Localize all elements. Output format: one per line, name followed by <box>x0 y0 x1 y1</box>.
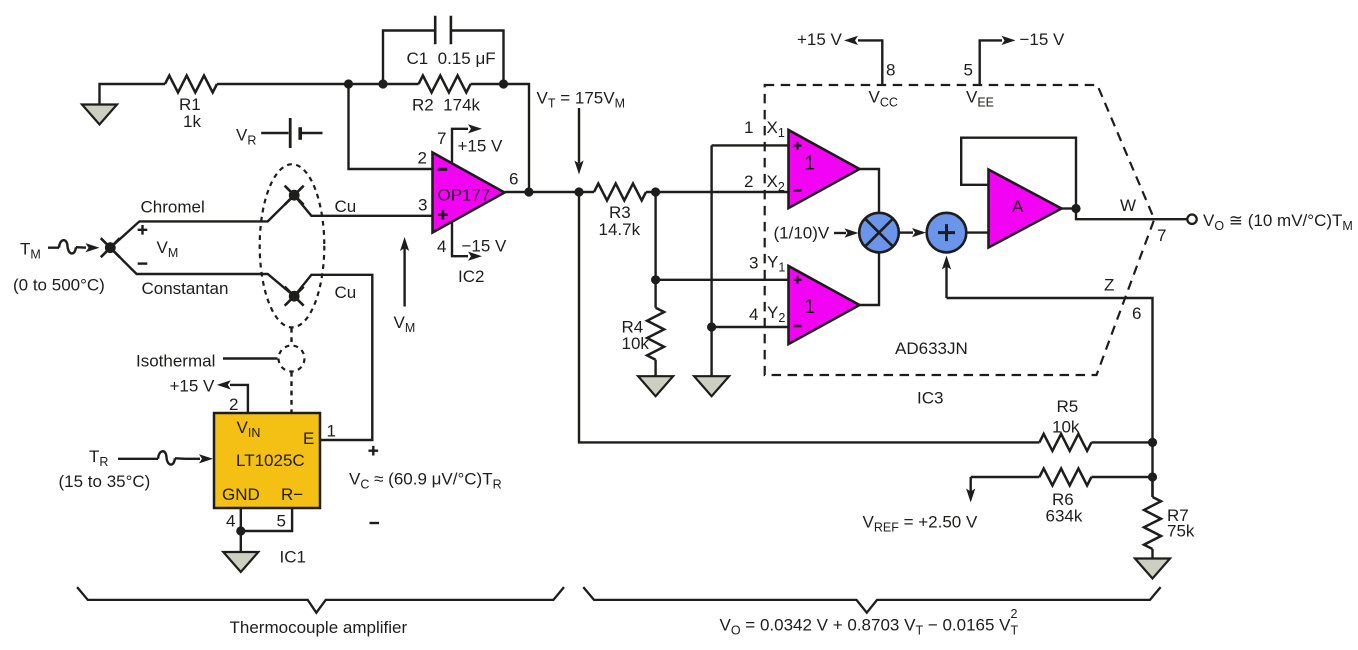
label minus (VC) <box>370 522 380 524</box>
node (pin4/pin5) <box>236 526 245 535</box>
label OP177 <box>438 186 491 205</box>
svg-text:X2: X2 <box>767 172 785 194</box>
VREF arrow <box>966 477 975 503</box>
svg-text:−15 V: −15 V <box>462 237 508 256</box>
svg-text:Cu: Cu <box>335 197 357 216</box>
svg-text:8: 8 <box>886 61 895 80</box>
svg-text:1k: 1k <box>183 112 201 131</box>
wire (feedback to op-amp pin 2) <box>349 84 433 169</box>
svg-text:VO = 0.0342 V + 0.8703 VT − 0.: VO = 0.0342 V + 0.8703 VT − 0.0165 VT <box>720 616 1019 638</box>
svg-text:Cu: Cu <box>335 283 357 302</box>
pin 8 number <box>886 61 895 80</box>
label VC equation <box>349 470 502 492</box>
svg-text:VREF = +2.50 V: VREF = +2.50 V <box>863 513 978 535</box>
label Thermocouple amplifier <box>230 618 408 637</box>
wire (R1 to R2) <box>217 83 419 85</box>
label minus (Y amp) <box>794 325 802 328</box>
wire X1 input <box>712 144 789 146</box>
svg-text:R2 174k: R2 174k <box>412 96 481 115</box>
wire A feedback loop <box>961 138 1076 209</box>
node (VT tap) <box>574 187 583 196</box>
label Isothermal <box>136 352 215 371</box>
svg-text:14.7k: 14.7k <box>599 220 641 239</box>
label (1/10)V <box>774 224 830 243</box>
op-amp pin 4 supply wire <box>452 222 468 257</box>
svg-text:4: 4 <box>749 305 758 324</box>
svg-text:5: 5 <box>277 512 286 531</box>
pin 6 number (IC3 Z) <box>1132 304 1141 323</box>
svg-text:LT1025C: LT1025C <box>236 451 305 470</box>
capacitor C1 <box>383 16 504 84</box>
label Cu upper <box>335 197 357 216</box>
node (C1 left) <box>378 79 387 88</box>
svg-text:E: E <box>303 429 314 448</box>
svg-text:Isothermal: Isothermal <box>136 352 215 371</box>
label +15 V (op-amp) <box>458 137 504 156</box>
svg-text:VO ≅ (10 mV/°C)TM: VO ≅ (10 mV/°C)TM <box>1203 211 1353 233</box>
IC3 pin 5 supply wire <box>980 36 1016 85</box>
svg-text:−15 V: −15 V <box>1020 30 1066 49</box>
label plus (VC) <box>369 446 379 456</box>
label plus (X amp) <box>794 142 802 150</box>
label gain 1 (X amp) <box>804 153 815 175</box>
node (Y1/R4) <box>651 275 660 284</box>
node (feedback tap) <box>344 79 353 88</box>
svg-text:TM: TM <box>20 240 41 262</box>
VM arrow (below op-amp) <box>400 237 409 307</box>
label X2 <box>767 172 785 194</box>
label R3 value <box>599 203 641 239</box>
pin 2 number (IC1) <box>229 395 238 414</box>
pin 1 number (IC3) <box>744 118 753 137</box>
svg-text:R5: R5 <box>1057 397 1079 416</box>
label VEE <box>966 88 994 110</box>
svg-text:3: 3 <box>418 196 427 215</box>
label -15 V (op-amp) <box>462 237 508 256</box>
dashed ellipse (isothermal block) <box>260 164 325 327</box>
svg-text:OP177: OP177 <box>438 186 491 205</box>
label X1 <box>767 118 785 140</box>
svg-text:W: W <box>1120 196 1136 215</box>
VT pointer arrow <box>574 108 583 175</box>
svg-text:TR: TR <box>89 447 108 469</box>
svg-text:5: 5 <box>964 61 973 80</box>
svg-text:VR: VR <box>236 126 256 148</box>
label VO equation <box>720 607 1019 638</box>
label R7 value <box>1167 506 1195 541</box>
label R1 value <box>179 95 201 131</box>
wire (VT down to R5 line) <box>579 192 1039 442</box>
svg-text:1: 1 <box>744 118 753 137</box>
label W <box>1120 196 1136 215</box>
svg-text:4: 4 <box>226 512 235 531</box>
IC3 dashed boundary <box>765 85 1155 375</box>
svg-text:A: A <box>1012 197 1024 216</box>
output terminal <box>1187 215 1196 224</box>
wire summer to A amp <box>966 231 988 233</box>
junction (Constantan-Cu) <box>285 287 304 306</box>
label VIN <box>237 418 261 440</box>
wire VREF corner <box>971 476 1040 478</box>
svg-text:+15 V: +15 V <box>458 137 504 156</box>
svg-text:R−: R− <box>281 485 303 504</box>
label GND <box>222 485 260 504</box>
svg-text:1: 1 <box>804 296 815 318</box>
label C1 value <box>407 49 496 68</box>
label plus (Y amp) <box>794 276 802 284</box>
label R- <box>281 485 303 504</box>
Y buffer amp <box>789 266 860 344</box>
ground (rail) <box>694 376 729 396</box>
wire Cu (lower, to IC1 pin E) <box>294 275 372 440</box>
resistor R1 <box>165 76 217 93</box>
pin 3 number <box>418 196 427 215</box>
summer <box>927 213 967 253</box>
svg-text:Y2: Y2 <box>767 303 785 325</box>
ground (R4) <box>638 376 673 396</box>
node (Y2 tap) <box>707 322 716 331</box>
svg-text:75k: 75k <box>1167 522 1195 541</box>
svg-text:VT = 175VM: VT = 175VM <box>537 89 625 111</box>
pin 6 number <box>509 170 518 189</box>
ground (IC1) <box>223 552 258 572</box>
multiplier <box>859 213 899 253</box>
svg-text:Thermocouple amplifier: Thermocouple amplifier <box>230 618 408 637</box>
summer Z input arrow <box>942 256 951 299</box>
svg-text:VM: VM <box>157 238 179 260</box>
input arrow TM <box>48 240 100 253</box>
svg-text:(1/10)V: (1/10)V <box>774 224 830 243</box>
multiplier to summer arrow <box>899 228 926 237</box>
label op-amp minus input <box>438 168 448 171</box>
svg-text:Constantan: Constantan <box>142 279 229 298</box>
pin 2 number (IC3) <box>744 172 753 191</box>
node (VT feedback) <box>524 187 533 196</box>
label LT1025C <box>236 451 305 470</box>
resistor R6 <box>1039 469 1091 486</box>
svg-text:3: 3 <box>749 254 758 273</box>
dashed link node to IC1 <box>290 372 292 412</box>
pin 5 number (IC3 supply) <box>964 61 973 80</box>
label A <box>1012 197 1024 216</box>
label R6 value <box>1046 490 1083 526</box>
svg-text:+15 V: +15 V <box>797 30 843 49</box>
wire (R2 to VT corner, down to op-amp output) <box>471 84 529 192</box>
label -15 V (IC3) <box>1020 30 1066 49</box>
svg-text:1: 1 <box>327 422 336 441</box>
svg-text:VC ≈ (60.9 μV/°C)TR: VC ≈ (60.9 μV/°C)TR <box>349 470 502 492</box>
label Constantan <box>142 279 229 298</box>
label Chromel <box>141 198 205 217</box>
resistor R4 <box>647 280 664 376</box>
op-amp U1 OP177 (IC2) <box>433 153 505 233</box>
svg-text:10k: 10k <box>1052 418 1080 437</box>
svg-text:X1: X1 <box>767 118 785 140</box>
isothermal pointer line <box>223 357 278 359</box>
wire Cu (upper, to op-amp pin 3) <box>294 195 432 216</box>
pin 4 number <box>437 237 446 256</box>
wire (X1/Y2 ground rail) <box>710 145 712 376</box>
label E <box>303 429 314 448</box>
svg-text:VM: VM <box>394 313 416 335</box>
brace (thermocouple amplifier) <box>77 587 564 613</box>
label (0 to 500degC) <box>13 276 105 295</box>
(1/10)V input arrow <box>834 228 859 237</box>
svg-text:2: 2 <box>418 149 427 168</box>
wire Chromel <box>110 195 294 248</box>
wire Z <box>947 298 1153 497</box>
input arrow TR <box>118 451 213 464</box>
label R5 value <box>1052 397 1080 437</box>
pin 1 number (IC1) <box>327 422 336 441</box>
isothermal node (dashed circle) <box>279 346 305 372</box>
wire R5 to node <box>1091 441 1152 443</box>
dashed link ellipse to node <box>290 328 292 346</box>
pin 3 number (IC3) <box>749 254 758 273</box>
wire (R3 node down to Y1 node) <box>654 192 656 280</box>
wire R6 to node <box>1091 476 1152 478</box>
label TR <box>89 447 108 469</box>
label plus (VM) <box>138 225 148 235</box>
label +15 V (IC1) <box>170 377 216 396</box>
wire X amp output to multiplier <box>860 169 880 213</box>
node (R5/Z) <box>1148 438 1157 447</box>
label IC3 <box>917 389 943 408</box>
label R2 value <box>412 96 481 115</box>
svg-text:+15 V: +15 V <box>170 377 216 396</box>
label minus (X amp) <box>794 189 802 192</box>
svg-text:7: 7 <box>1157 226 1166 245</box>
label IC1 <box>280 548 306 567</box>
svg-text:Chromel: Chromel <box>141 198 205 217</box>
op-amp pin 7 supply wire <box>452 129 468 164</box>
svg-text:2: 2 <box>744 172 753 191</box>
wire Constantan <box>110 248 294 297</box>
svg-text:(0 to 500°C): (0 to 500°C) <box>13 276 105 295</box>
svg-text:IC2: IC2 <box>458 267 484 286</box>
svg-text:IC1: IC1 <box>280 548 306 567</box>
node (A output) <box>1071 204 1080 213</box>
label VCC <box>869 88 898 110</box>
ground (R7) <box>1135 559 1170 579</box>
label VT = 175VM <box>537 89 625 111</box>
label minus (VM) <box>138 262 148 264</box>
wire A amp output <box>1062 207 1077 209</box>
label Z <box>1104 276 1114 295</box>
wire Y2 input <box>712 326 789 328</box>
thermocouple junction (measuring) <box>101 238 120 257</box>
svg-text:10k: 10k <box>622 334 650 353</box>
label TM <box>20 240 41 262</box>
label Y1 <box>767 253 785 275</box>
node (C1 right) <box>499 79 508 88</box>
label VO output <box>1203 211 1353 233</box>
A output amp <box>989 170 1062 248</box>
label Cu lower <box>335 283 357 302</box>
svg-text:AD633JN: AD633JN <box>895 339 968 358</box>
wire W output <box>1076 209 1187 220</box>
wire Y1 input <box>656 279 789 281</box>
IC1 pin 5 wire <box>241 508 292 531</box>
IC1 pin 2 supply wire <box>217 380 248 413</box>
svg-text:634k: 634k <box>1046 507 1083 526</box>
svg-text:C1 0.15 μF: C1 0.15 μF <box>407 49 496 68</box>
label Y2 <box>767 303 785 325</box>
svg-text:Y1: Y1 <box>767 253 785 275</box>
ground (top-left) <box>82 105 117 125</box>
svg-text:GND: GND <box>222 485 260 504</box>
svg-text:IC3: IC3 <box>917 389 943 408</box>
pin 2 number <box>418 149 427 168</box>
resistor R2 <box>419 76 471 93</box>
pin 4 number (IC1) <box>226 512 235 531</box>
svg-text:7: 7 <box>437 129 446 148</box>
pin 4 number (IC3) <box>749 305 758 324</box>
label VR <box>236 126 256 148</box>
label (15 to 35degC) <box>59 472 151 491</box>
node (R3 output) <box>651 187 660 196</box>
IC1 pin 4 wire <box>240 508 242 552</box>
resistor R7 <box>1144 477 1161 559</box>
label VREF <box>863 513 978 535</box>
svg-text:1: 1 <box>804 153 815 175</box>
svg-text:Z: Z <box>1104 276 1114 295</box>
svg-text:6: 6 <box>509 170 518 189</box>
pin 7 number (IC3 W) <box>1157 226 1166 245</box>
label VM (thermocouple) <box>157 238 179 260</box>
pin 5 number (IC1) <box>277 512 286 531</box>
label AD633JN <box>895 339 968 358</box>
wire (gnd riser + top line to R1) <box>100 84 166 105</box>
svg-text:6: 6 <box>1132 304 1141 323</box>
IC1 LT1025C body <box>214 413 320 508</box>
label IC2 <box>458 267 484 286</box>
svg-text:2: 2 <box>229 395 238 414</box>
wire Y amp output to multiplier <box>860 252 880 305</box>
svg-text:VEE: VEE <box>966 88 994 110</box>
svg-text:2: 2 <box>1011 607 1018 621</box>
label +15 V (IC3) <box>797 30 843 49</box>
junction (Chromel-Cu) <box>285 186 304 205</box>
resistor R3 <box>594 184 646 201</box>
label op-amp plus input <box>438 210 448 220</box>
battery VR <box>261 118 322 148</box>
resistor R5 <box>1039 434 1091 451</box>
svg-text:4: 4 <box>437 237 446 256</box>
label gain 1 (Y amp) <box>804 296 815 318</box>
label R4 value <box>622 318 650 354</box>
node (R6/R7) <box>1148 472 1157 481</box>
svg-text:VCC: VCC <box>869 88 898 110</box>
brace (output equation) <box>583 587 1160 613</box>
pin 7 number <box>437 129 446 148</box>
IC3 pin 8 supply wire <box>844 36 882 85</box>
X buffer amp <box>789 130 860 208</box>
wire (op-amp output line) <box>505 191 789 193</box>
svg-text:(15 to 35°C): (15 to 35°C) <box>59 472 151 491</box>
label VM (arrow) <box>394 313 416 335</box>
